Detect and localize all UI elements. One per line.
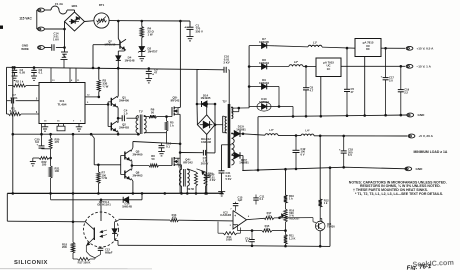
svg-text:6 V: 6 V (301, 153, 305, 157)
terminal AC bottom (38, 27, 45, 31)
svg-text:Fig. 76-1: Fig. 76-1 (406, 263, 432, 270)
junction R22 (49, 157, 52, 160)
wire Vcc rail (7, 67, 200, 69)
capacitor C5 (346, 48, 348, 89)
wire mid to C7 (180, 152, 203, 154)
svg-text:1μF: 1μF (238, 198, 243, 202)
transistor U4 IC3 TL430 (315, 221, 325, 231)
transistor opto photo (93, 228, 95, 241)
junction C12 bottom (295, 168, 298, 171)
diode D9 (249, 86, 261, 88)
capacitor C3 (33, 68, 35, 71)
wire pot chain top (285, 169, 287, 195)
wire D16 up (141, 193, 143, 199)
resistor R5 (166, 117, 168, 121)
diode D16 (123, 197, 129, 203)
junction mid bus c (72, 133, 75, 136)
svg-text:BR1: BR1 (72, 4, 78, 8)
junction mid bus e (117, 133, 120, 136)
svg-text:0.1: 0.1 (39, 71, 43, 75)
wire T1 right bottom (143, 132, 145, 134)
wire IC3 cathode (321, 219, 323, 223)
capacitor C4 (118, 117, 122, 119)
ground R22 (30, 161, 36, 163)
transformer T1 (136, 116, 138, 134)
capacitor C20b (204, 174, 210, 176)
resistor R14 (218, 232, 223, 234)
junction bridge cap bus (205, 192, 208, 195)
inductor L2 (289, 65, 303, 67)
wire Q4 source (178, 164, 182, 166)
svg-text:TL430: TL430 (327, 225, 335, 229)
capacitor C20 (41, 134, 43, 146)
svg-text:0.001: 0.001 (10, 96, 18, 100)
junction gnd line x258 (257, 169, 260, 172)
capacitor C16 (161, 143, 163, 146)
svg-text:2N4403: 2N4403 (133, 173, 143, 177)
transformer T2 primary (225, 117, 227, 133)
ground C16 (158, 151, 165, 153)
wire fb right leg (329, 168, 331, 247)
svg-text:F1 3A: F1 3A (55, 2, 64, 6)
svg-text:0.1: 0.1 (246, 239, 250, 243)
resistor R22 (39, 157, 49, 160)
svg-text:680pF: 680pF (105, 250, 113, 254)
junction mid node (179, 143, 182, 146)
wire R18 top leg (72, 222, 74, 243)
op-amp U3 7915 box (316, 58, 341, 77)
wire reg1 out (381, 47, 405, 49)
wire D2 to ground (141, 52, 143, 57)
wire opto collector riser (100, 200, 102, 221)
terminal GND2 (405, 167, 412, 171)
svg-text:470: 470 (172, 216, 177, 220)
terminal AC top (38, 8, 45, 12)
wire pin drop x73 (72, 134, 74, 222)
wire out to IC3 (274, 217, 313, 219)
junction gnd line x330 (329, 166, 332, 169)
junction emitters C4 (117, 117, 120, 120)
wire bridge bottom leg (206, 134, 208, 175)
svg-text:1 k: 1 k (170, 123, 174, 127)
wire bridge top (206, 104, 208, 115)
junction C8 top (305, 65, 308, 68)
svg-text:100K: 100K (226, 238, 232, 242)
wire primary bracket (215, 124, 223, 126)
wire C7 to x215 (206, 152, 215, 154)
svg-text:R9 56: R9 56 (187, 187, 194, 191)
junction C12 top (295, 134, 298, 137)
junction mid bus b (49, 133, 52, 136)
wire opto collector wire (6, 193, 8, 221)
wire gnd bus left leg (257, 117, 259, 170)
wire D9 drop (278, 87, 280, 107)
wire base feed (93, 138, 95, 165)
capacitor C15 (235, 202, 237, 204)
junction left bus vcc (12, 66, 15, 69)
capacitor C21 (219, 170, 225, 172)
diode D4 (116, 56, 121, 61)
svg-text:1.0: 1.0 (124, 111, 128, 115)
ground above IC1 (63, 60, 65, 68)
capacitor C10 (197, 68, 223, 70)
svg-text:MINIMUM LOAD ≥ 1A: MINIMUM LOAD ≥ 1A (414, 150, 448, 154)
svg-text:+: + (381, 74, 383, 78)
capacitor C1 (187, 26, 194, 28)
ground C3 (31, 75, 37, 77)
diode D13 (234, 131, 240, 137)
junction emitters R8 (131, 164, 134, 167)
potentiometer R16 pot (284, 209, 287, 222)
wire D15 up (242, 156, 244, 171)
junction left bus mid (12, 133, 15, 136)
transistor Q1 (108, 101, 111, 103)
junction gnd line pot (284, 168, 287, 171)
svg-text:1N4148: 1N4148 (201, 140, 211, 144)
svg-text:5 KV: 5 KV (226, 177, 232, 181)
transformer T3 (179, 170, 181, 187)
svg-text:1 k: 1 k (265, 227, 269, 231)
junction C3 top (33, 66, 36, 69)
bottom scan shadow (0, 268, 152, 270)
junction C19 top (400, 65, 403, 68)
svg-text:R2 1 k: R2 1 k (16, 80, 24, 84)
junction R3 top (98, 67, 101, 70)
capacitor C14 (44, 47, 51, 49)
wire 5V rail c (314, 135, 407, 137)
junction C5 top (346, 47, 349, 50)
wire R15 to pot (272, 230, 286, 232)
transformer T2 secondary bottom (232, 133, 235, 165)
svg-text:1N4935: 1N4935 (259, 40, 269, 44)
terminal GND WIRE (38, 46, 45, 50)
transistor Q4 (171, 158, 173, 166)
wire T3 right tap (186, 168, 188, 171)
wire opamp plus feed (119, 218, 171, 221)
resistor R17b (264, 217, 274, 220)
svg-text:R17 100 K: R17 100 K (78, 261, 91, 265)
junction fb bus a (251, 245, 254, 248)
wire Q7 emitter (124, 49, 126, 51)
wire T3 bottoms (181, 186, 183, 193)
pin stub IC1 top a (50, 68, 52, 83)
svg-text:4.7: 4.7 (310, 88, 314, 92)
wire 5V rail a (243, 134, 265, 135)
wire fuse to bridge (67, 9, 75, 11)
wire R10a to pot (285, 203, 287, 209)
ground C1 (187, 36, 194, 38)
wire T1 left bottom (137, 133, 139, 134)
svg-text:2N4400: 2N4400 (133, 152, 143, 156)
wire D4 to Vcc rail (117, 60, 119, 68)
junction AC-bot bridge (63, 28, 66, 31)
junction HV rail (179, 20, 182, 23)
wire reg2 gnd pin (320, 77, 322, 117)
capacitor C17 (385, 48, 387, 77)
wire bridge to thermistor (85, 20, 95, 23)
resistor R2 (13, 84, 26, 87)
opto light arrows (101, 230, 108, 232)
wire Q3 source (178, 113, 180, 115)
inductor L3 (265, 134, 278, 136)
junction D13 rail (242, 133, 245, 136)
capacitor C14b (251, 231, 253, 240)
wire Vcc left drop (6, 67, 8, 114)
wire D14 right drop (214, 104, 216, 153)
wire C10 to T2 (228, 70, 230, 105)
capacitor C8 (305, 66, 307, 87)
wire op-amp out (247, 218, 265, 219)
wire Q1 collector (116, 96, 119, 98)
terminal +15V (406, 46, 413, 50)
wire D7 to L1 (274, 46, 308, 47)
wire sec-top tap2 (232, 111, 239, 113)
wire mid bus (13, 133, 140, 135)
svg-text:T3*: T3* (178, 164, 182, 168)
junction base rail (107, 103, 110, 106)
wire AC bottom (44, 28, 64, 30)
wire R4 to D2 (141, 38, 143, 47)
svg-text:1N914B: 1N914B (122, 204, 132, 208)
svg-text:IRF342: IRF342 (183, 160, 193, 164)
svg-text:1 k: 1 k (324, 201, 328, 205)
svg-text:0.05: 0.05 (20, 71, 26, 75)
svg-text:¼ W: ¼ W (103, 85, 109, 89)
junction R7 bus (97, 192, 100, 195)
junction c17 gnd (384, 114, 387, 117)
svg-text:2N4400: 2N4400 (119, 99, 129, 103)
junction fb bus c (319, 245, 322, 248)
svg-text:0.1: 0.1 (166, 144, 170, 148)
svg-text:+5 V, 20 A: +5 V, 20 A (419, 134, 434, 138)
junction C17 top (384, 47, 387, 50)
svg-text:* T1, T2, T3, L1, L2, L3, L4—S: * T1, T2, T3, L1, L2, L3, L4—SEE TEXT FO… (355, 192, 443, 196)
op-amp U5 IC2 CA3130 (233, 211, 247, 230)
pin stub IC1 right b (85, 103, 108, 105)
wire opto emitter (85, 246, 87, 252)
wire reg1 gnd pin (364, 57, 366, 116)
wire pot to R11 (285, 222, 287, 235)
pin stub IC1 right a (85, 96, 99, 98)
wire T1 right top (143, 116, 145, 117)
wire sec-bot center tap (222, 144, 232, 146)
wire R8 to Q4 gate (159, 165, 173, 167)
junction diode bus c (248, 85, 251, 88)
transistor Q2 (108, 126, 111, 128)
terminal -15V (406, 64, 413, 68)
svg-text:8C: 8C (366, 47, 370, 51)
svg-text:1N4934: 1N4934 (259, 100, 269, 104)
svg-text:115 VAC: 115 VAC (19, 17, 32, 21)
junction c19 gnd (400, 114, 403, 117)
resistor R4 (141, 21, 143, 27)
resistor R9 (195, 172, 198, 186)
junction wiper (278, 217, 281, 220)
wire reg2 out (341, 65, 405, 67)
svg-text:1N4757: 1N4757 (148, 50, 158, 54)
svg-text:−: − (234, 223, 236, 227)
wire C20 R20 join (42, 148, 51, 150)
resistor R10 (197, 169, 206, 172)
terminal +5V (408, 134, 415, 138)
junction R10 bus (204, 192, 207, 195)
svg-text:+15 V, 0.5 A: +15 V, 0.5 A (417, 47, 435, 51)
junction x73 bus (72, 192, 75, 195)
label figure number (406, 263, 432, 270)
svg-text:+: + (184, 26, 186, 30)
junction sense top (319, 135, 322, 138)
svg-text:−15 V, 1 A: −15 V, 1 A (417, 65, 432, 69)
junction base tap (97, 164, 100, 167)
ground C6 (146, 78, 153, 80)
resistor R18 (71, 242, 74, 253)
junction Q6 bus (132, 192, 135, 195)
transistor Q3 (171, 107, 173, 115)
resistor R20 (50, 134, 52, 138)
junction mid bus d (90, 133, 93, 136)
junction D14 right (214, 103, 217, 106)
op-amp U1 IC1 TL494 box (39, 83, 85, 124)
wire primary gnd bus (7, 192, 222, 194)
junction fb bus b (284, 245, 287, 248)
junction x73 base wire (72, 221, 75, 224)
inductor L4 (301, 134, 314, 136)
junction C18 bottom (342, 166, 345, 169)
wire 5V gnd line (242, 167, 407, 170)
svg-text:TL494: TL494 (58, 103, 67, 107)
junction Q7 base rail (92, 67, 95, 70)
svg-text:1N4148: 1N4148 (125, 59, 135, 63)
wire Q56 base rail (120, 156, 122, 175)
svg-text:350 V: 350 V (196, 30, 204, 34)
wire switch rail (179, 114, 181, 193)
diode D7 (249, 45, 261, 47)
wire sense drop x320 (319, 136, 321, 199)
wire IC1 pin16 drop (41, 124, 43, 135)
bridge D9-D12 (197, 115, 215, 135)
ground bridge (61, 51, 68, 53)
jumper IC1 bottom (58, 124, 60, 127)
wire T1 left top (137, 116, 139, 119)
junction R4 top (141, 20, 144, 23)
capacitor C2 (14, 67, 16, 70)
wire 5V rail b (278, 134, 301, 136)
junction left bus gnd (12, 192, 15, 195)
wire sec-bot tap1 (231, 132, 233, 135)
wire R20 down (50, 149, 52, 158)
terminal GND out (407, 113, 414, 117)
junction R3 pin12 (98, 96, 101, 99)
ground IC1 left pin (44, 124, 46, 127)
svg-text:½ W: ½ W (102, 176, 108, 180)
svg-text:1N4934: 1N4934 (259, 81, 269, 85)
zener D2 (139, 47, 145, 52)
svg-text:GND: GND (418, 113, 426, 117)
wire LED anode (115, 220, 119, 221)
pin stub IC1 top b (69, 68, 71, 83)
wire L2 to reg2 (303, 65, 316, 67)
wire bottom return (118, 244, 230, 246)
wire C1 feed (189, 21, 191, 27)
junction Q7 collector (117, 20, 120, 23)
resistor R7 (97, 165, 99, 172)
resistor R6 (149, 115, 157, 118)
wire upper rail Q5 (132, 142, 134, 148)
svg-text:47: 47 (154, 71, 158, 75)
ground IC1 right pin (78, 124, 80, 127)
wire thermistor to C1 node (109, 20, 190, 22)
svg-text:CA3130: CA3130 (220, 213, 231, 217)
svg-text:0.1: 0.1 (260, 197, 264, 201)
wire minus loop (233, 224, 238, 226)
wire Q6 collector (131, 178, 133, 181)
svg-text:+: + (234, 214, 236, 218)
wire Q5 collector (131, 148, 133, 152)
svg-text:1C: 1C (327, 67, 331, 71)
svg-text:1N4935: 1N4935 (201, 96, 211, 100)
wire D16 feed (51, 199, 122, 201)
ground D2 (138, 56, 145, 58)
wire Vcc corner (196, 69, 198, 104)
ground C2 (12, 75, 18, 77)
svg-text:6 V: 6 V (348, 153, 352, 157)
wire L1 to reg1 (322, 47, 355, 48)
capacitor C12 (295, 136, 297, 151)
svg-text:5.1 K: 5.1 K (10, 109, 18, 113)
wire sec-top tap1 (231, 107, 233, 108)
svg-text:1N4934: 1N4934 (259, 61, 269, 65)
junction C2 top (13, 66, 16, 69)
wire out gnd bus (258, 115, 407, 117)
capacitor C0 (7, 100, 11, 102)
svg-text:ADJUST: ADJUST (289, 216, 300, 220)
wire Q3 drain (178, 106, 180, 108)
fuse F1 (51, 6, 67, 14)
resistor R12 (319, 199, 322, 207)
resistor R19 (73, 258, 78, 260)
capacitor C6 (148, 69, 150, 72)
wire Q7 collector (117, 21, 119, 39)
resistor R3 (98, 68, 100, 80)
resistor R21 (50, 158, 52, 166)
wire Q2 collector (116, 130, 119, 132)
wire D10 to gnd bus (279, 106, 293, 108)
wire left bus (12, 67, 14, 193)
pin stub IC1 top c (75, 68, 77, 82)
svg-text:50: 50 (152, 157, 155, 161)
capacitor C7 (202, 150, 204, 156)
wire HV rail drop (179, 21, 181, 107)
wire mid node (133, 142, 180, 144)
svg-text:+: + (339, 148, 341, 152)
bridge rectifier BR1 (65, 12, 85, 31)
thermistor RT1 (94, 13, 109, 28)
resistor R8 (149, 164, 159, 167)
transistor Q7 (119, 41, 121, 49)
wire sec-bot tap2 (232, 155, 235, 157)
svg-text:470: 470 (55, 140, 60, 144)
resistor R15 (262, 229, 272, 232)
junction reg2 gnd (320, 115, 323, 118)
junction C14-bridge leg (63, 46, 66, 49)
wire Q4 drain (178, 157, 180, 159)
svg-text:SILICONIX: SILICONIX (14, 260, 48, 266)
resistor R13 (170, 219, 179, 222)
junction diode bus b (248, 65, 251, 68)
svg-text:20K: 20K (62, 245, 67, 249)
junction R15 pot (284, 229, 287, 232)
diode D15 (234, 152, 240, 158)
